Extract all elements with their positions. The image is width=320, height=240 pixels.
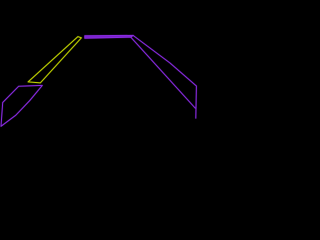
right wedge: upper diagonal glow: [133, 36, 196, 119]
right wedge: lower diagonal glow: [131, 37, 196, 108]
right wedge: upper diagonal + right vertical: [133, 36, 196, 119]
yellow slab (thin parallelogram): [28, 37, 81, 83]
bottom-left purple panel: [1, 85, 42, 126]
purple bar core: [85, 35, 133, 38]
right wedge: lower diagonal: [131, 37, 196, 108]
yellow slab (thin parallelogram) glow: [28, 37, 81, 83]
bottom-left purple panel glow: [1, 85, 42, 126]
purple bar (top, near edge-on quad) glow: [85, 35, 133, 38]
